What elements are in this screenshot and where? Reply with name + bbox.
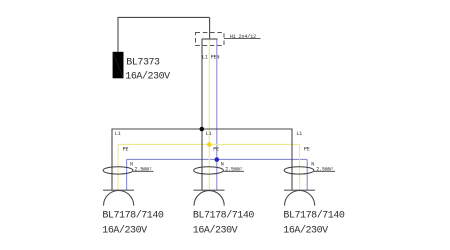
wire L1 continuation middle branch <box>201 129 203 190</box>
junction dot PE <box>207 142 212 147</box>
svg-text:N: N <box>221 162 224 168</box>
svg-text:L1: L1 <box>115 131 121 137</box>
svg-text:2.5mm²: 2.5mm² <box>316 166 334 172</box>
svg-text:16A/230V: 16A/230V <box>125 71 170 83</box>
splitter bar <box>202 38 218 40</box>
wire PE bus horizontal (yellow) <box>118 143 300 145</box>
junction dot N <box>215 157 220 162</box>
wire N continuation middle branch <box>216 159 218 190</box>
lamp dome middle <box>194 191 224 206</box>
lamp dome left <box>104 191 134 206</box>
junction dot L1 <box>200 127 205 132</box>
wire PE drop right branch <box>299 144 301 190</box>
fuse BL7373 <box>113 52 124 79</box>
wire supply horizontal top <box>118 16 210 18</box>
svg-text:N: N <box>130 162 133 168</box>
svg-text:16A/230V: 16A/230V <box>283 224 328 236</box>
svg-text:BL7373: BL7373 <box>126 57 160 68</box>
svg-text:BL7178/7140: BL7178/7140 <box>283 210 345 222</box>
wire L1 drop left branch <box>111 129 113 191</box>
lamp bar left <box>103 189 134 191</box>
svg-text:PE: PE <box>213 147 219 153</box>
svg-text:BL7178/7140: BL7178/7140 <box>193 210 255 222</box>
wire supply vertical to fuse <box>117 17 119 51</box>
leader line H1 <box>224 38 261 40</box>
wire L1 bus horizontal <box>112 128 292 130</box>
wire N from box (blue vertical) <box>216 40 218 160</box>
cable ellipse middle <box>194 167 224 174</box>
svg-text:16A/230V: 16A/230V <box>102 224 147 236</box>
svg-text:BL7178/7140: BL7178/7140 <box>102 210 164 222</box>
cable leader middle <box>224 170 245 172</box>
wire PE continuation middle branch <box>208 144 210 190</box>
svg-text:16A/230V: 16A/230V <box>193 224 238 236</box>
svg-text:H1 2x4/12: H1 2x4/12 <box>230 34 256 40</box>
lamp bar right <box>284 189 315 191</box>
svg-text:2.5mm²: 2.5mm² <box>135 166 153 172</box>
lamp bar middle <box>194 189 225 191</box>
junction box H1 (dashed) <box>196 33 225 46</box>
cable ellipse left <box>103 167 133 174</box>
wire N bus horizontal (blue) <box>127 158 308 160</box>
svg-text:PE: PE <box>304 147 310 153</box>
wire PE from box (yellow vertical) <box>208 40 210 145</box>
wire PE drop left branch <box>117 144 119 190</box>
lamp dome right <box>285 191 315 206</box>
wire L1 drop right branch <box>291 129 293 191</box>
wire N drop right branch <box>306 159 308 190</box>
svg-text:L1: L1 <box>296 131 302 137</box>
cable ellipse right <box>284 167 314 174</box>
wire L1 from box (gray vertical) <box>201 39 203 129</box>
wire supply drop into junction box <box>209 17 211 39</box>
svg-text:N: N <box>311 162 314 168</box>
svg-text:L1: L1 <box>206 131 212 137</box>
wire N drop left branch <box>126 159 128 190</box>
svg-text:2.5mm²: 2.5mm² <box>225 166 243 172</box>
cable leader right <box>314 170 335 172</box>
cable leader left <box>133 170 153 172</box>
svg-text:PE: PE <box>123 147 129 153</box>
